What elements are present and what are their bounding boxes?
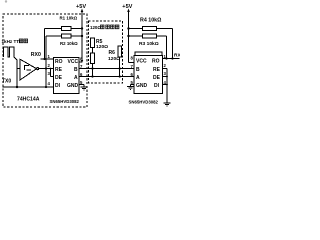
svg-text:A: A — [136, 75, 140, 81]
svg-text:RO: RO — [152, 58, 160, 64]
svg-text:RX: RX — [174, 52, 180, 58]
svg-text:R1 10kΩ: R1 10kΩ — [60, 15, 78, 20]
svg-text:DI: DI — [55, 83, 61, 89]
svg-text:TX0: TX0 — [2, 79, 11, 85]
svg-text:B: B — [136, 67, 140, 73]
svg-text:RO: RO — [55, 59, 63, 65]
svg-text:+5V: +5V — [122, 4, 132, 10]
svg-text:SN65HVD3082: SN65HVD3082 — [129, 100, 159, 105]
svg-text:RX0: RX0 — [31, 52, 41, 58]
svg-text:DE: DE — [153, 75, 161, 81]
svg-text:A: A — [74, 75, 78, 81]
svg-text:R6: R6 — [109, 50, 116, 56]
svg-text:GND: GND — [136, 83, 148, 89]
svg-text:120Ω: 120Ω — [108, 56, 120, 62]
svg-text:R3 10kΩ: R3 10kΩ — [139, 41, 159, 47]
svg-text:GND: GND — [67, 83, 79, 89]
svg-text:RE: RE — [55, 67, 63, 73]
svg-text:B: B — [74, 67, 78, 73]
svg-text:RE: RE — [153, 67, 161, 73]
svg-text:DI: DI — [154, 83, 160, 89]
svg-text:74HC14A: 74HC14A — [17, 97, 40, 103]
svg-text:120Ω: 120Ω — [96, 44, 108, 50]
svg-text:SN65HVD3082: SN65HVD3082 — [50, 99, 80, 104]
svg-text:+5V: +5V — [76, 4, 86, 10]
svg-text:VCC: VCC — [136, 58, 147, 64]
svg-text:R2 10kΩ: R2 10kΩ — [60, 41, 78, 46]
svg-text:DE: DE — [55, 75, 63, 81]
svg-text:R4 10kΩ: R4 10kΩ — [140, 17, 162, 23]
svg-text:VCC: VCC — [68, 59, 79, 65]
svg-text:120Ω: 120Ω — [90, 25, 101, 30]
